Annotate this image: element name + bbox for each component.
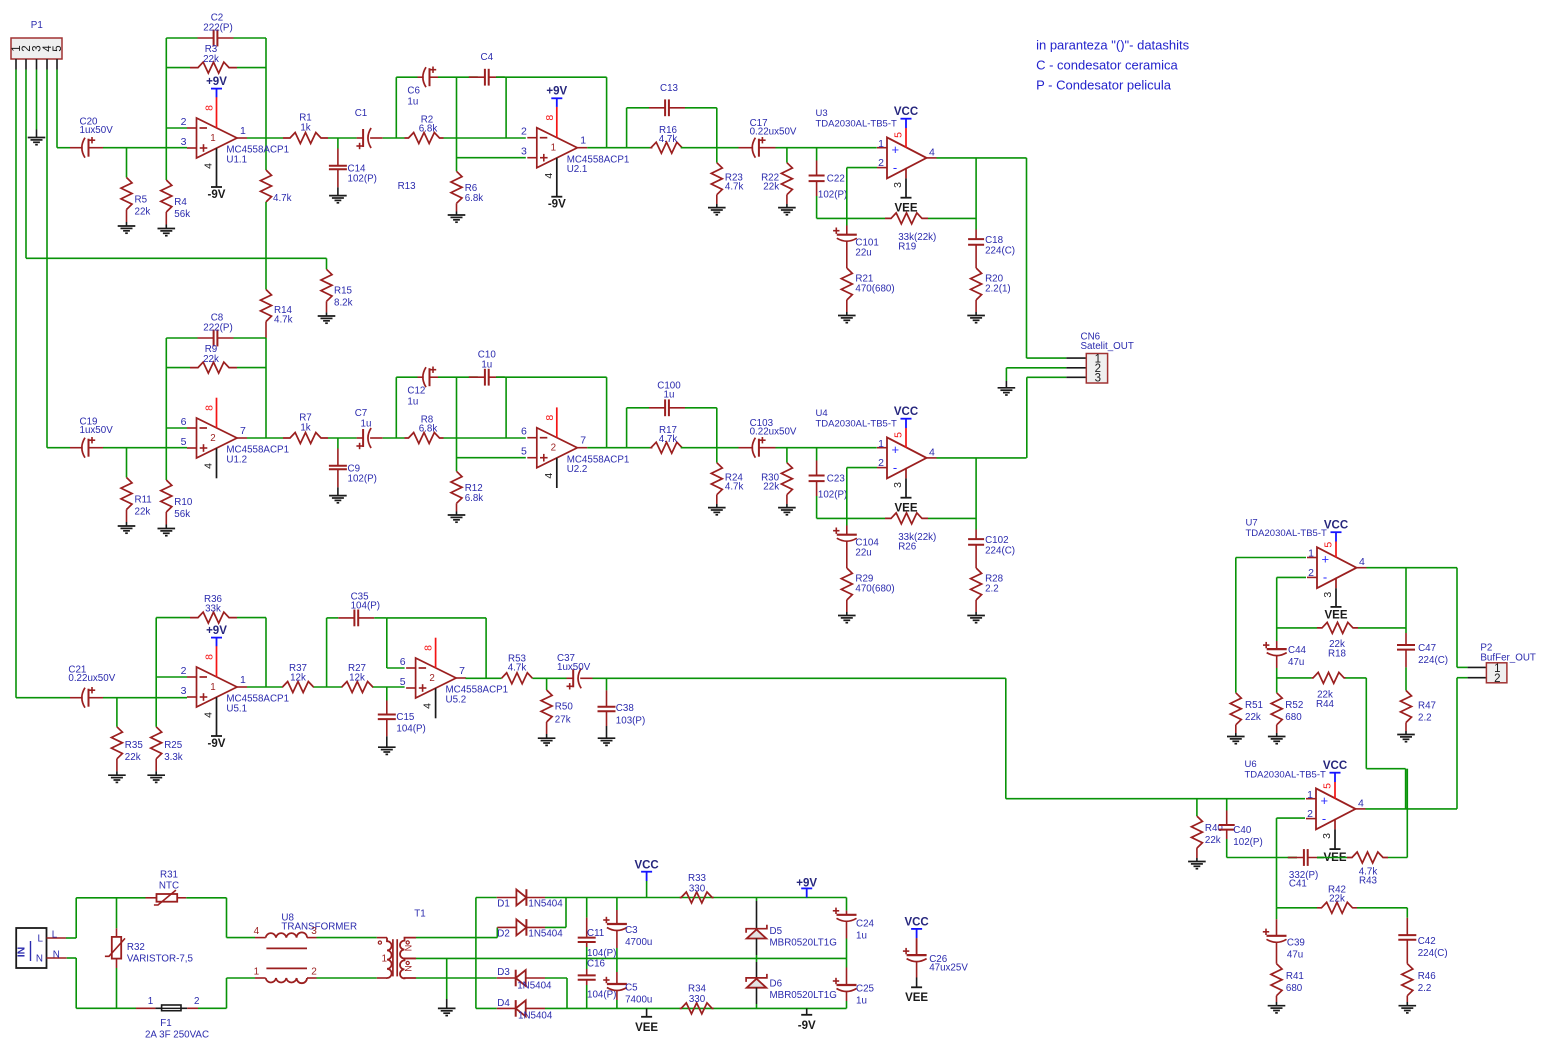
ground xyxy=(329,196,347,203)
wire C41 line xyxy=(1227,857,1297,859)
ground xyxy=(158,529,176,536)
svg-text:0.22ux50V: 0.22ux50V xyxy=(750,127,797,138)
fuse F1 xyxy=(117,996,227,1041)
power -9V xyxy=(798,1008,816,1032)
svg-text:1: 1 xyxy=(1308,548,1314,560)
ground xyxy=(778,208,796,215)
resistor R46 xyxy=(1402,964,1436,1006)
svg-text:R25: R25 xyxy=(164,740,183,751)
svg-text:8: 8 xyxy=(544,115,556,121)
wire xyxy=(975,458,977,530)
wire U6 out to P2 pin2 xyxy=(1457,678,1468,809)
wire C47 vertical xyxy=(1405,568,1407,633)
power VCC xyxy=(634,859,658,897)
svg-text:22k: 22k xyxy=(203,54,219,65)
power +9V xyxy=(796,878,817,898)
svg-text:5: 5 xyxy=(1323,542,1335,548)
svg-text:0.22ux50V: 0.22ux50V xyxy=(68,673,115,684)
svg-text:3: 3 xyxy=(521,146,527,158)
svg-text:1N5404: 1N5404 xyxy=(517,981,552,992)
wire xyxy=(226,978,228,1008)
wire xyxy=(1405,667,1407,690)
svg-text:2: 2 xyxy=(194,996,199,1007)
op-amp U1.2 xyxy=(181,398,289,479)
svg-text:8: 8 xyxy=(423,645,435,651)
svg-text:3: 3 xyxy=(181,136,187,148)
svg-text:BufFer_OUT: BufFer_OUT xyxy=(1480,652,1536,663)
resistor R36 xyxy=(156,594,266,623)
ground xyxy=(378,747,396,754)
ground xyxy=(1227,737,1245,744)
ground xyxy=(1268,737,1286,744)
svg-text:4: 4 xyxy=(1358,797,1364,809)
op-amp U2.2 xyxy=(521,407,629,488)
resistor R47 xyxy=(1401,691,1436,735)
svg-text:1: 1 xyxy=(210,682,215,693)
svg-text:D4: D4 xyxy=(497,998,510,1009)
svg-text:C5: C5 xyxy=(625,983,638,994)
wire xyxy=(387,617,486,619)
resistor R14 xyxy=(261,290,293,339)
svg-text:6.8k: 6.8k xyxy=(465,193,484,204)
svg-text:2: 2 xyxy=(311,967,317,978)
resistor R53 xyxy=(502,654,533,684)
capacitor C4 xyxy=(469,52,505,85)
svg-text:224(C): 224(C) xyxy=(1418,655,1448,666)
capacitor C47 xyxy=(1397,633,1448,667)
svg-text:47u: 47u xyxy=(1288,657,1304,668)
svg-text:R5: R5 xyxy=(135,195,148,206)
svg-text:U1.1: U1.1 xyxy=(226,155,247,166)
op-amp U2.1 xyxy=(521,86,629,211)
ground xyxy=(1268,1006,1286,1013)
wire xyxy=(247,137,283,139)
svg-text:+9V: +9V xyxy=(206,625,227,637)
wire xyxy=(103,697,187,699)
svg-text:+9V: +9V xyxy=(546,86,567,98)
resistor R12 xyxy=(451,471,483,515)
svg-text:104(P): 104(P) xyxy=(351,601,380,612)
ground xyxy=(108,775,126,782)
svg-text:1: 1 xyxy=(254,967,260,978)
svg-text:22u: 22u xyxy=(855,248,871,259)
svg-text:C13: C13 xyxy=(660,83,679,94)
wire xyxy=(847,468,877,519)
resistor R11 xyxy=(121,448,152,526)
resistor R10 xyxy=(161,480,193,529)
wire xyxy=(817,517,847,519)
connector CN6 xyxy=(1066,332,1134,385)
capacitor C38 xyxy=(598,678,646,738)
wire xyxy=(326,618,328,687)
resistor R18 xyxy=(1277,622,1406,659)
svg-text:4: 4 xyxy=(203,712,215,718)
wire xyxy=(533,677,567,679)
ground xyxy=(28,138,46,145)
svg-text:+: + xyxy=(892,142,900,157)
svg-text:T1: T1 xyxy=(414,909,425,920)
svg-text:103(P): 103(P) xyxy=(616,716,645,727)
note film xyxy=(1036,78,1172,93)
svg-text:R18: R18 xyxy=(1328,649,1347,660)
svg-text:1: 1 xyxy=(240,125,246,137)
svg-text:VEE: VEE xyxy=(1324,609,1347,621)
wire pin2 xyxy=(1277,577,1306,641)
capacitor C15 xyxy=(378,687,426,747)
svg-text:2.2: 2.2 xyxy=(1418,983,1432,994)
wire pin6 drop xyxy=(387,618,405,668)
svg-text:0.22ux50V: 0.22ux50V xyxy=(750,427,797,438)
svg-text:8.2k: 8.2k xyxy=(334,298,353,309)
wire xyxy=(166,127,187,129)
svg-text:680: 680 xyxy=(1285,712,1302,723)
svg-text:TDA2030AL-TB5-T: TDA2030AL-TB5-T xyxy=(1246,528,1328,539)
wire xyxy=(496,376,607,378)
capacitor C39 xyxy=(1263,908,1305,964)
capacitor C7 xyxy=(355,408,383,449)
svg-text:C44: C44 xyxy=(1288,645,1307,656)
resistor R24 xyxy=(711,448,743,508)
resistor R35 xyxy=(111,698,143,776)
svg-text:5: 5 xyxy=(893,432,905,438)
svg-text:U4: U4 xyxy=(816,408,828,419)
svg-text:-: - xyxy=(1323,570,1327,585)
svg-text:R35: R35 xyxy=(125,740,144,751)
wire pin2 xyxy=(1277,818,1306,908)
svg-text:2: 2 xyxy=(521,126,527,138)
svg-text:2.2: 2.2 xyxy=(1418,713,1432,724)
svg-text:TDA2030AL-TB5-T: TDA2030AL-TB5-T xyxy=(816,418,898,429)
wire xyxy=(103,447,187,449)
svg-text:222(P): 222(P) xyxy=(203,323,232,334)
svg-text:12k: 12k xyxy=(349,673,365,684)
svg-text:R31: R31 xyxy=(160,870,178,881)
svg-text:R33: R33 xyxy=(688,873,707,884)
svg-text:P - Condesator pelicula: P - Condesator pelicula xyxy=(1036,78,1172,93)
wire xyxy=(314,686,342,688)
svg-text:U1.2: U1.2 xyxy=(226,455,247,466)
svg-text:47ux25V: 47ux25V xyxy=(929,963,968,974)
wire xyxy=(166,427,187,429)
varistor R32 xyxy=(105,898,194,1009)
resistor R37 xyxy=(282,663,313,693)
diode D6 xyxy=(746,958,837,1008)
note ceramic xyxy=(1036,58,1178,73)
svg-text:1: 1 xyxy=(580,135,586,147)
svg-text:1u: 1u xyxy=(407,397,418,408)
wire xyxy=(485,618,487,678)
svg-text:C6: C6 xyxy=(407,86,420,97)
svg-text:1: 1 xyxy=(210,133,215,144)
svg-text:22k: 22k xyxy=(763,482,779,493)
diode D1 xyxy=(476,889,563,909)
svg-text:224(C): 224(C) xyxy=(985,546,1015,557)
svg-text:1ux50V: 1ux50V xyxy=(80,125,114,136)
wire xyxy=(776,147,877,149)
svg-text:1ux50V: 1ux50V xyxy=(557,662,591,673)
svg-text:C11: C11 xyxy=(587,928,604,939)
svg-text:224(C): 224(C) xyxy=(1418,948,1448,959)
wire CN6 pin2 to ground xyxy=(1006,368,1066,388)
svg-text:1: 1 xyxy=(551,143,556,154)
wire xyxy=(817,217,847,219)
svg-text:D1: D1 xyxy=(497,899,510,910)
svg-text:VCC: VCC xyxy=(894,406,918,418)
transformer U8 xyxy=(227,913,377,984)
svg-text:102(P): 102(P) xyxy=(1233,837,1262,848)
amplifier U4 xyxy=(816,406,937,514)
svg-text:102(P): 102(P) xyxy=(348,174,377,185)
capacitor C101 xyxy=(833,218,879,268)
wire xyxy=(627,408,717,448)
svg-text:8: 8 xyxy=(204,654,216,660)
svg-text:22k: 22k xyxy=(1205,835,1221,846)
capacitor C44 xyxy=(1263,641,1307,693)
resistor R41 xyxy=(1271,964,1304,1006)
connector P1 xyxy=(11,20,64,70)
svg-text:4.7k: 4.7k xyxy=(274,315,293,326)
svg-text:C24: C24 xyxy=(856,919,875,930)
resistor R20 xyxy=(971,268,1011,316)
svg-text:6.8k: 6.8k xyxy=(419,124,438,135)
svg-text:TDA2030AL-TB5-T: TDA2030AL-TB5-T xyxy=(1245,769,1327,780)
svg-text:1: 1 xyxy=(1307,789,1313,801)
svg-text:3: 3 xyxy=(181,685,187,697)
resistor R42 xyxy=(1277,885,1408,914)
diode D4 xyxy=(476,998,553,1022)
svg-text:22k: 22k xyxy=(135,507,151,518)
op-amp U1.1 xyxy=(181,76,289,201)
ground xyxy=(998,388,1016,395)
svg-text:TRANSFORMER: TRANSFORMER xyxy=(281,922,357,933)
power VEE xyxy=(635,1008,658,1034)
wire xyxy=(496,76,607,78)
svg-text:R46: R46 xyxy=(1418,971,1437,982)
svg-text:R32: R32 xyxy=(127,942,145,953)
svg-text:4.7k: 4.7k xyxy=(273,193,292,204)
wire xyxy=(328,137,357,139)
resistor R5 xyxy=(121,148,150,226)
svg-text:C39: C39 xyxy=(1287,938,1305,949)
ground xyxy=(1399,1006,1417,1013)
wire xyxy=(456,377,458,471)
svg-text:Satelit_OUT: Satelit_OUT xyxy=(1081,341,1134,352)
svg-text:L: L xyxy=(38,934,44,945)
capacitor C22 xyxy=(809,148,848,219)
capacitor C19 xyxy=(70,417,113,458)
capacitor C100 xyxy=(627,380,717,416)
resistor R29 xyxy=(841,568,894,616)
svg-text:3: 3 xyxy=(1321,833,1333,839)
op-amp U5.1 xyxy=(181,625,289,750)
capacitor C11 xyxy=(578,898,617,960)
resistor R16 xyxy=(651,125,682,153)
svg-text:4: 4 xyxy=(203,463,215,469)
wire U4 output to CN6 pin3 xyxy=(1027,377,1067,458)
svg-text:1: 1 xyxy=(240,674,246,686)
wire xyxy=(444,137,526,139)
ground xyxy=(598,738,616,745)
ground xyxy=(838,616,856,623)
svg-text:R19: R19 xyxy=(898,242,916,253)
capacitor C10 xyxy=(469,350,505,386)
wire xyxy=(438,376,478,378)
wire xyxy=(545,978,567,1008)
capacitor C26 xyxy=(903,938,968,977)
capacitor C21 xyxy=(68,665,115,708)
svg-text:MBR0520LT1G: MBR0520LT1G xyxy=(770,990,837,1001)
ground xyxy=(1188,862,1206,869)
capacitor C2 xyxy=(166,13,266,47)
svg-text:R26: R26 xyxy=(898,542,917,553)
svg-text:VEE: VEE xyxy=(905,992,928,1004)
resistor R13(4.7k) xyxy=(261,170,292,204)
svg-text:7: 7 xyxy=(459,665,465,677)
svg-text:U5.1: U5.1 xyxy=(226,704,247,715)
wire xyxy=(265,38,267,170)
ground xyxy=(448,215,466,222)
svg-text:C42: C42 xyxy=(1418,936,1436,947)
svg-text:F1: F1 xyxy=(160,1018,171,1029)
resistor R23 xyxy=(711,148,743,208)
wire P1 pin4 to C19 xyxy=(47,70,70,448)
wire xyxy=(396,77,417,138)
wire xyxy=(937,457,1027,459)
wire xyxy=(505,77,507,138)
svg-text:104(P): 104(P) xyxy=(587,990,616,1001)
wire P1 pin3 to ground xyxy=(36,70,38,138)
svg-text:1N5404: 1N5404 xyxy=(518,1011,553,1022)
svg-text:+: + xyxy=(892,442,900,457)
capacitor C104 xyxy=(833,518,879,568)
wire xyxy=(383,437,405,439)
capacitor C6 xyxy=(407,67,438,108)
resistor R50 xyxy=(541,678,573,738)
svg-text:R13: R13 xyxy=(398,181,417,192)
svg-text:IN: IN xyxy=(16,947,28,958)
wire bottom rail xyxy=(545,1007,847,1009)
resistor R43 xyxy=(1317,852,1407,887)
svg-text:U2.1: U2.1 xyxy=(567,164,588,175)
svg-text:2: 2 xyxy=(181,665,187,677)
svg-text:6.8k: 6.8k xyxy=(465,493,484,504)
svg-text:C12: C12 xyxy=(407,386,425,397)
capacitor C23 xyxy=(809,448,848,519)
svg-text:U3: U3 xyxy=(816,108,828,119)
capacitor C18 xyxy=(968,230,1015,269)
ground xyxy=(538,738,556,745)
wire R44 to U6 out xyxy=(1366,678,1405,809)
svg-text:VCC: VCC xyxy=(904,917,928,929)
svg-text:4.7k: 4.7k xyxy=(659,434,678,445)
wire xyxy=(545,898,566,928)
svg-text:C22: C22 xyxy=(827,174,845,185)
ground xyxy=(118,526,136,533)
svg-text:in paranteza "()"- datashits: in paranteza "()"- datashits xyxy=(1036,38,1190,53)
svg-text:6.8k: 6.8k xyxy=(419,424,438,435)
wire L xyxy=(66,898,76,938)
svg-text:MBR0520LT1G: MBR0520LT1G xyxy=(770,938,837,949)
svg-text:56k: 56k xyxy=(174,509,190,520)
svg-text:L: L xyxy=(52,930,58,941)
capacitor C41 xyxy=(1288,849,1324,889)
wire xyxy=(681,447,739,449)
svg-text:22k: 22k xyxy=(135,207,151,218)
svg-text:4: 4 xyxy=(543,473,555,479)
svg-text:102(P): 102(P) xyxy=(818,490,847,501)
power VEE xyxy=(905,978,928,1004)
svg-text:7400u: 7400u xyxy=(625,995,652,1006)
svg-text:+: + xyxy=(1321,793,1329,808)
svg-text:22k: 22k xyxy=(125,752,141,763)
svg-text:2: 2 xyxy=(210,433,215,444)
svg-text:R10: R10 xyxy=(174,497,193,508)
wire P1 pin1 to C21 xyxy=(16,70,70,698)
capacitor C35 xyxy=(327,592,387,627)
wire U3 output to CN6 pin1 xyxy=(1027,158,1067,358)
resistor R6 xyxy=(451,171,483,215)
resistor R33 xyxy=(680,873,714,903)
svg-text:C40: C40 xyxy=(1233,825,1252,836)
wire xyxy=(587,147,652,149)
wire xyxy=(457,157,526,159)
svg-text:R4: R4 xyxy=(174,197,187,208)
svg-text:C38: C38 xyxy=(616,703,635,714)
svg-text:7: 7 xyxy=(240,425,246,437)
svg-text:2: 2 xyxy=(878,157,884,169)
resistor R52 xyxy=(1271,693,1303,737)
wire xyxy=(681,147,739,149)
wire sub drop xyxy=(1006,678,1305,798)
svg-text:C102: C102 xyxy=(985,535,1008,546)
svg-text:C16: C16 xyxy=(587,958,606,969)
svg-text:-9V: -9V xyxy=(208,738,226,750)
svg-text:2.2(1): 2.2(1) xyxy=(985,284,1011,295)
wire pin2 stub xyxy=(156,676,187,678)
label R13 xyxy=(398,181,417,192)
wire pin1 xyxy=(1236,558,1306,693)
svg-text:56k: 56k xyxy=(174,209,190,220)
op-amp U5.2 xyxy=(400,638,508,719)
wire xyxy=(606,377,608,448)
svg-text:D3: D3 xyxy=(497,967,510,978)
svg-text:U5.2: U5.2 xyxy=(446,695,467,706)
wire xyxy=(373,686,405,688)
resistor R28 xyxy=(971,568,1004,616)
capacitor C20 xyxy=(70,117,113,158)
svg-text:1u: 1u xyxy=(481,360,492,371)
svg-text:1N5404: 1N5404 xyxy=(528,929,563,940)
svg-text:R41: R41 xyxy=(1286,971,1304,982)
capacitor C25 xyxy=(833,958,875,1008)
svg-text:6: 6 xyxy=(181,416,187,428)
svg-text:1u: 1u xyxy=(664,390,675,401)
ground xyxy=(158,229,176,236)
svg-text:C7: C7 xyxy=(355,408,368,419)
wire P1 pin2 run xyxy=(26,70,327,259)
svg-text:2: 2 xyxy=(1307,808,1313,820)
svg-text:U7: U7 xyxy=(1246,518,1258,529)
resistor R8 xyxy=(405,415,444,444)
ground xyxy=(838,316,856,323)
svg-text:-9V: -9V xyxy=(548,199,566,211)
svg-text:6: 6 xyxy=(400,656,406,668)
svg-text:R50: R50 xyxy=(555,702,574,713)
capacitor C16 xyxy=(578,958,617,1008)
wire xyxy=(847,168,877,219)
capacitor C9 xyxy=(329,438,377,496)
svg-text:2: 2 xyxy=(1308,567,1314,579)
